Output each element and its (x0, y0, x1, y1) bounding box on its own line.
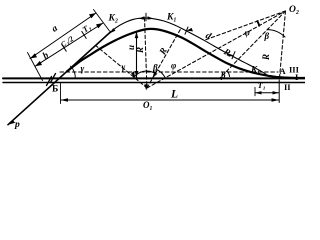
svg-text:R: R (135, 47, 145, 54)
svg-text:O₂: O₂ (289, 5, 299, 15)
svg-text:R: R (261, 54, 271, 61)
svg-text:T₁: T₁ (258, 80, 266, 90)
svg-text:II: II (284, 82, 291, 92)
svg-text:p: p (14, 120, 20, 130)
svg-text:O₁: O₁ (143, 100, 153, 110)
svg-text:K₂: K₂ (108, 14, 119, 24)
svg-text:β: β (264, 31, 270, 41)
svg-text:γ: γ (81, 64, 85, 74)
svg-text:K₁: K₁ (166, 13, 177, 23)
svg-text:A: A (280, 66, 287, 76)
svg-text:φ: φ (171, 61, 176, 71)
svg-text:β: β (220, 70, 226, 80)
svg-text:L: L (170, 89, 178, 101)
svg-text:Б: Б (52, 85, 58, 95)
svg-text:φ: φ (245, 28, 250, 38)
svg-text:γ: γ (122, 62, 126, 72)
svg-text:K₁: K₁ (250, 65, 260, 75)
svg-text:β: β (152, 63, 158, 73)
